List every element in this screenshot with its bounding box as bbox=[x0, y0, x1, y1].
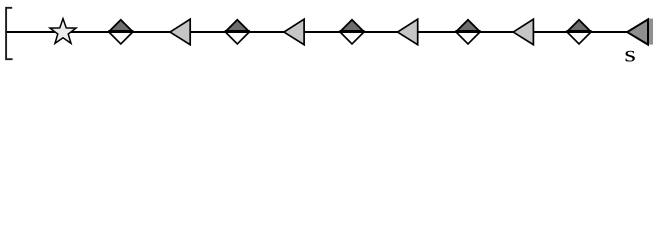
node: start star marker bbox=[50, 19, 76, 44]
node: diamond marker D4 bbox=[455, 20, 480, 44]
node: triangle marker T3 bbox=[398, 19, 418, 45]
node: triangle marker T1 bbox=[170, 19, 190, 45]
node: diamond marker D1 bbox=[108, 20, 133, 44]
node: diamond marker D2 bbox=[225, 20, 250, 44]
label: s bbox=[626, 51, 635, 62]
node: triangle marker T4 bbox=[513, 19, 533, 45]
node: triangle marker T2 bbox=[284, 19, 304, 45]
node: final triangle marker T5 (clipped at right edge) bbox=[627, 19, 653, 45]
node: left interval bracket [ bbox=[6, 8, 13, 59]
node: diamond marker D3 bbox=[339, 20, 364, 44]
wire: main horizontal timeline bbox=[5, 31, 653, 33]
node: diamond marker D5 bbox=[566, 20, 591, 44]
